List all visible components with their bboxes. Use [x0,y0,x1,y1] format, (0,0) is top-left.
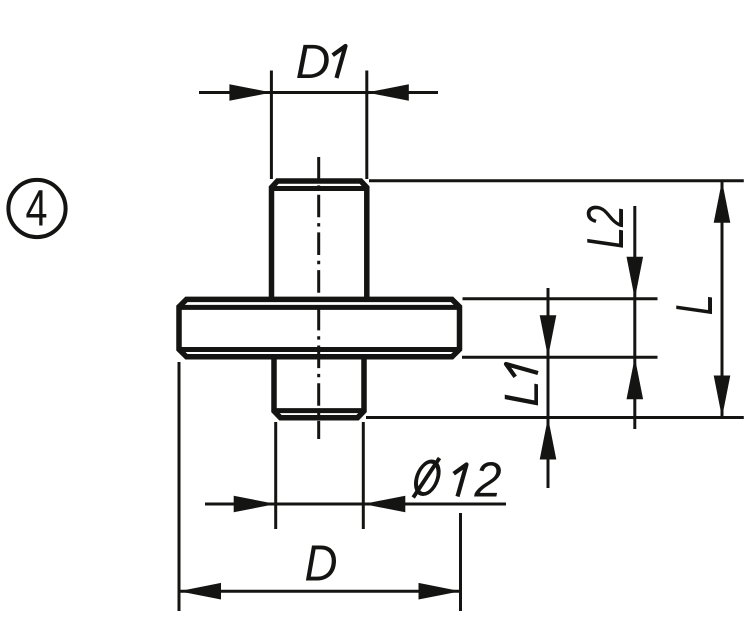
dimension Ø12 label digit 1 [454,465,467,497]
L dimension line [721,181,724,418]
top projection line [369,179,744,182]
svg-text:L: L [666,294,724,315]
dimension L1 label digit 1 [506,364,538,377]
svg-text:D: D [305,534,338,591]
flange top right extension line [463,297,658,300]
upper stud outline [272,181,367,300]
Ø12 right extension line [362,422,365,529]
D1 right arrowhead [367,84,409,101]
svg-text:2: 2 [473,454,501,508]
L2 upper arrowhead [627,257,644,299]
bottom projection line [366,416,744,419]
L2 dimension line [633,206,636,429]
L2 lower arrowhead [627,357,644,399]
svg-text:L: L [496,380,549,407]
position balloon 4 circle [8,180,65,237]
flange top chamfer line [180,305,460,310]
lower stud chamfer line [274,408,364,413]
L1 upper arrowhead [540,315,557,357]
Ø12 left arrowhead [234,496,276,513]
D dimension line [179,590,461,593]
D1 dimension line [199,91,438,94]
dimension Ø12 label diameter symbol [413,462,442,495]
L1 lower arrowhead [540,418,557,460]
Ø12 left extension line [274,422,277,529]
svg-text:D: D [296,36,331,89]
centerline [317,157,320,439]
D right arrowhead [419,583,461,600]
D1 right extension line [365,71,368,180]
D1 left extension line [270,71,273,180]
flange bottom right extension line [462,356,658,359]
Ø12 right arrowhead [363,496,405,513]
Ø12 dimension line [205,503,506,506]
D1 left arrowhead [229,84,271,101]
flange bottom chamfer line [180,347,460,352]
lower stud outline [274,356,364,418]
svg-text:L2: L2 [577,205,635,249]
D left arrowhead [179,583,221,600]
svg-text:4: 4 [26,180,48,237]
upper stud chamfer line [272,186,367,191]
dimension D1 label digit 1 [333,46,346,78]
L top arrowhead [714,181,731,223]
L1 dimension line [547,288,550,488]
flange outline [179,299,460,356]
D left extension line [178,362,181,611]
L bottom arrowhead [714,376,731,418]
D right extension line [459,513,462,611]
